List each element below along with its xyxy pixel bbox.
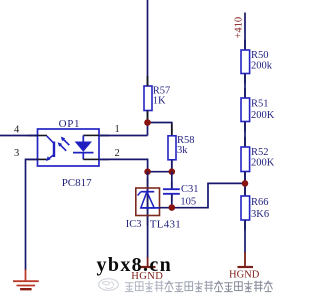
resistor R52 — [241, 147, 275, 172]
node junction dot A — [144, 119, 151, 126]
svg-text:R52: R52 — [251, 147, 269, 158]
wire R51 to R52 — [244, 122, 246, 148]
junction dot B — [144, 168, 151, 175]
svg-text:PC817: PC817 — [62, 177, 92, 189]
capacitor C31 — [163, 184, 199, 207]
svg-text:HGND: HGND — [229, 270, 260, 281]
wire node to R58 top — [148, 123, 172, 137]
wire pin1 of OP1 — [99, 135, 148, 137]
watermark logo circle — [99, 279, 119, 291]
pin number 4 — [14, 125, 20, 136]
svg-text:1: 1 — [115, 124, 120, 135]
pin number 1 — [115, 124, 120, 135]
wire node C down to C31 — [171, 172, 173, 189]
wire R50 to R51 — [244, 74, 246, 99]
wire R52 through node E to R66 — [244, 172, 246, 197]
svg-text:200K: 200K — [251, 158, 275, 169]
power port HGND left — [131, 257, 163, 282]
wire node B down through IC3 to HGND — [147, 172, 149, 258]
wire node B to node C — [148, 171, 172, 173]
svg-text:200k: 200k — [251, 61, 273, 72]
svg-text:R50: R50 — [251, 50, 269, 61]
pin number 3 — [14, 148, 19, 159]
watermark ybx8.cn — [97, 254, 173, 276]
wire R57 bottom to node — [147, 111, 149, 136]
wire TL431 ref to node D and up to divider — [160, 183, 246, 207]
power +410 — [234, 13, 246, 51]
wire pin3 of OP1 to ground — [26, 159, 38, 270]
OP1 phototransistor — [38, 136, 55, 162]
svg-text:TL431: TL431 — [150, 218, 181, 230]
junction dot D — [169, 204, 176, 211]
wire C31 bottom to node D — [171, 195, 173, 208]
OP1 light arrows — [58, 137, 70, 151]
resistor R58 — [168, 135, 195, 160]
wire top feed to R57 — [147, 0, 149, 87]
component pin stubs — [28, 40, 246, 230]
wire pin4 of OP1 — [0, 135, 38, 137]
wire pin2 of OP1 down to node B — [99, 159, 148, 171]
svg-text:4: 4 — [14, 125, 20, 136]
wire R58 bottom to node C — [171, 160, 173, 172]
svg-text:+410: +410 — [234, 17, 245, 39]
svg-text:105: 105 — [180, 197, 196, 208]
svg-text:2: 2 — [115, 148, 120, 159]
junction dot C — [169, 168, 176, 175]
watermark chinese text row — [125, 281, 273, 292]
svg-text:ybx8.cn: ybx8.cn — [97, 254, 173, 276]
resistor R66 — [241, 196, 269, 220]
svg-text:R66: R66 — [251, 197, 269, 208]
svg-text:3K6: 3K6 — [251, 209, 269, 220]
junction dot E — [242, 180, 249, 187]
svg-text:3: 3 — [14, 148, 19, 159]
svg-text:200K: 200K — [251, 110, 275, 121]
shunt regulator IC3 TL431 — [126, 188, 181, 230]
svg-text:IC3: IC3 — [126, 219, 142, 230]
resistor R51 — [241, 98, 275, 122]
svg-text:R51: R51 — [251, 99, 269, 110]
OP1 part label PC817 — [62, 177, 92, 189]
svg-text:3k: 3k — [177, 145, 188, 156]
resistor R50 — [241, 50, 273, 74]
svg-text:1K: 1K — [153, 95, 166, 106]
resistor R57 — [144, 85, 170, 110]
svg-text:C31: C31 — [181, 184, 199, 195]
power port HGND right — [229, 252, 260, 281]
svg-text:OP1: OP1 — [59, 118, 81, 130]
op-amp optocoupler OP1 box — [38, 118, 100, 166]
ground — [13, 270, 39, 290]
OP1 LED diode — [73, 135, 99, 159]
wire R66 to HGND right — [244, 220, 246, 253]
pin number 2 — [115, 148, 120, 159]
